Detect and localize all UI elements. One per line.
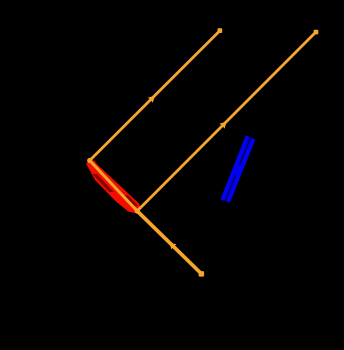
arrowhead on ray R2 (points up-right, tip at midpoint) xyxy=(219,122,226,129)
mirror segment M1 (bright red band V1-V2) xyxy=(86,160,141,213)
mirror segment M1 (dark red strip upper-left) xyxy=(92,174,113,192)
blue segment (middle bridge where strokes touch) xyxy=(234,165,241,176)
arrowhead on ray R3 (points up-left toward V2, tip at midpoint) xyxy=(169,242,176,249)
point C (orange dot, end of ray R2) xyxy=(314,30,319,35)
arrowhead on ray R1 (points up-right, tip at midpoint) xyxy=(148,96,155,103)
blue segment S1 (left stroke) xyxy=(222,136,247,200)
point V1 (orange dot) xyxy=(87,158,92,163)
point B (orange dot, end of ray R3) xyxy=(199,271,205,277)
ray R3: B to V2 (incident ray, orange, thicker) xyxy=(137,211,201,274)
wire: ray inside glass V1-V2 (orange, on top of red) xyxy=(90,161,138,212)
point A (orange dot, end of ray R1) xyxy=(218,28,223,33)
mirror segment M1 (dark red strip lower-right) xyxy=(123,196,138,207)
point V2 (orange dot) xyxy=(135,208,140,213)
blue segment (dark gap filler) xyxy=(225,138,250,202)
ray R1: V1 to A (outgoing ray, orange) xyxy=(90,31,220,161)
blue segment S2 (right stroke) xyxy=(228,139,253,202)
ray R2: V2 to C (outgoing ray, orange) xyxy=(137,32,316,211)
